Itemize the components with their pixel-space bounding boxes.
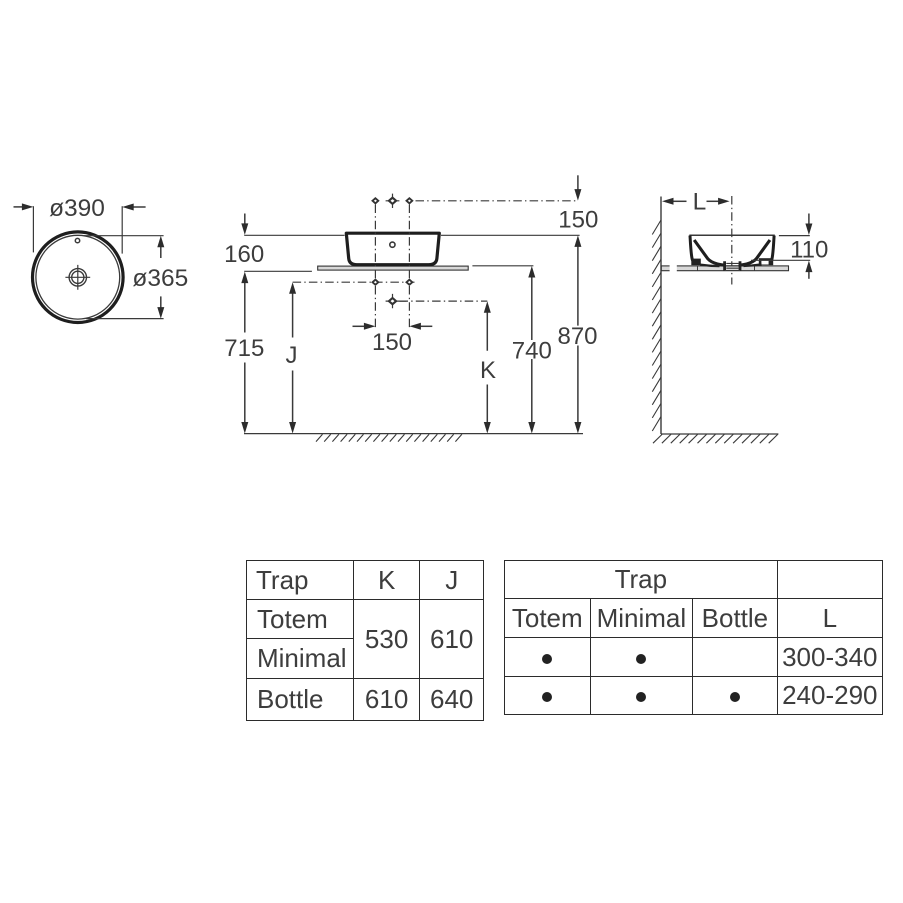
arrow down (ø365)	[160, 296, 162, 309]
basin outer wall right side	[771, 236, 775, 263]
svg-text:ø390: ø390	[49, 195, 105, 222]
drain axis dash-dot line (K datum)	[400, 300, 488, 302]
drain crosshair	[65, 265, 90, 290]
dim ext line right (ø390)	[121, 206, 123, 253]
basin inner bowl left slant	[694, 240, 725, 265]
svg-text:870: 870	[557, 323, 597, 350]
dim 740 line	[531, 275, 533, 425]
dim 110 arrow down	[808, 214, 810, 227]
wall line	[660, 197, 662, 435]
slab divider lines	[698, 266, 755, 271]
basin centreline (side)	[731, 196, 733, 285]
dim L: right arrow	[707, 200, 721, 202]
mid dash-dot line (J datum)	[293, 281, 415, 283]
rim-top reference line left	[244, 234, 344, 236]
centreline vertical left	[374, 205, 376, 329]
arrow up (ø365)	[160, 245, 162, 258]
svg-text:ø365: ø365	[132, 265, 188, 292]
basin inner bowl right slant	[739, 240, 770, 265]
basin outer rim circle	[33, 232, 124, 323]
slab break gap	[670, 265, 677, 272]
cross mark at tap centre	[386, 194, 400, 208]
counter top ref line right	[472, 265, 533, 267]
drain outer circle	[69, 269, 86, 286]
floor line front	[244, 433, 583, 435]
dim ext line bottom (ø365)	[86, 318, 164, 320]
dim 870 line	[577, 245, 579, 425]
basin bottom edge right	[744, 264, 762, 266]
dim 150 tap spacing: left arrow	[353, 325, 368, 327]
basin inner rim circle	[36, 235, 120, 319]
dim 160 arrow down	[244, 214, 246, 227]
TABLE 1: trap K/J dimensions	[246, 560, 484, 721]
basin foot right notch	[761, 261, 768, 265]
wall hatch	[652, 220, 661, 431]
svg-text:K: K	[480, 357, 496, 384]
countertop slab side	[661, 266, 788, 271]
dim 150 tap spacing: right arrow	[418, 325, 432, 327]
svg-text:740: 740	[512, 337, 552, 364]
centreline vertical right	[408, 205, 410, 329]
floor hatch front	[316, 434, 462, 441]
dim 110 arrow up	[808, 270, 810, 279]
drain trap block sides	[725, 261, 740, 270]
tap axis dash-dot line	[416, 200, 578, 202]
tap hole on basin front	[390, 242, 395, 247]
diamond lower left	[371, 278, 380, 286]
svg-text:J: J	[286, 342, 298, 369]
dim ext line top (ø365)	[84, 235, 164, 237]
diamond tap right	[405, 197, 414, 205]
TABLE 2: trap compatibility and L range	[504, 560, 883, 715]
arrow right (ø390)	[131, 206, 146, 208]
arrow left (ø390)	[14, 206, 25, 208]
basin body front	[346, 233, 439, 265]
svg-text:150: 150	[372, 329, 412, 356]
drain trap block hatch lines	[725, 263, 740, 270]
diamond tap centre	[387, 196, 397, 205]
svg-text:L: L	[693, 189, 707, 216]
drain inner circle	[72, 271, 84, 283]
diamond tap left	[371, 197, 380, 205]
svg-text:150: 150	[558, 207, 598, 234]
dim J line	[292, 291, 294, 425]
basin rim top line side	[689, 234, 775, 236]
diamond drain centre	[387, 297, 397, 306]
dim L: left arrow	[671, 200, 686, 202]
dim ext line left (ø390)	[32, 206, 34, 252]
110 bottom ref line	[751, 259, 810, 261]
svg-text:715: 715	[224, 335, 264, 362]
basin bottom edge left	[700, 265, 719, 267]
rim-top reference line right	[441, 234, 580, 236]
basin outer wall left side	[690, 236, 694, 263]
110 top ref line	[779, 235, 810, 237]
dim 715 line	[244, 281, 246, 425]
dim 150 tap height arrow	[577, 175, 579, 192]
counter underside ref line left	[244, 270, 312, 272]
basin foot left	[691, 259, 701, 266]
svg-text:160: 160	[224, 241, 264, 268]
countertop slab	[318, 266, 469, 270]
svg-text:110: 110	[790, 237, 828, 264]
floor line side	[661, 433, 778, 435]
dim K line	[486, 310, 488, 425]
basin foot right	[759, 258, 773, 265]
overflow hole	[75, 238, 79, 242]
cross mark at drain centre	[386, 294, 407, 308]
floor hatch side	[653, 434, 778, 443]
diamond lower right	[405, 278, 414, 286]
